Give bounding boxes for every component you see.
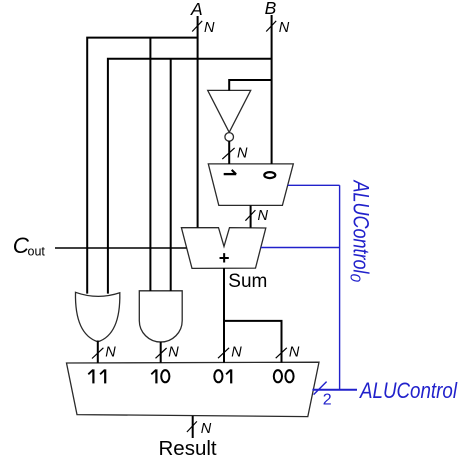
svg-text:ALUControl: ALUControl <box>349 179 374 274</box>
bus slash on AND output <box>156 348 167 358</box>
svg-text:N: N <box>258 208 269 224</box>
bus slash on B <box>266 21 276 32</box>
svg-text:Result: Result <box>159 437 217 460</box>
bus slash on inverter output <box>222 148 234 159</box>
wire ALUControl input <box>312 389 357 391</box>
label mux M1 input 1 (rotated digit) <box>224 170 237 174</box>
bus slash on OR output <box>92 348 103 359</box>
svg-text:+: + <box>219 247 230 268</box>
bus slash 2 on ALUControl <box>314 382 327 395</box>
bus slash on mux M1 output <box>245 210 255 221</box>
svg-text:N: N <box>231 344 242 360</box>
svg-text:out: out <box>28 244 46 258</box>
svg-text:ALUControl: ALUControl <box>358 378 457 403</box>
bus slash on A <box>192 21 202 32</box>
svg-text:A: A <box>190 0 203 19</box>
wire ALUControl0 select stub to mux M1 <box>288 184 340 186</box>
bus slash on input 00 <box>276 348 287 358</box>
bus slash on Sum input 01 <box>218 348 229 358</box>
AND gate G2 body <box>139 291 182 342</box>
wire inverter output to mux M1 input 1 <box>228 141 230 164</box>
adder body <box>181 228 265 269</box>
OR gate G1 body <box>75 292 119 342</box>
svg-text:B: B <box>265 0 277 18</box>
wire A branch to OR input 1 <box>87 38 197 294</box>
mux M1 (2:1) body <box>208 164 293 206</box>
mux M2 (4:1) body <box>67 362 320 416</box>
wire Sum branch to mux M2 input 00 <box>224 321 282 363</box>
svg-text:0: 0 <box>347 274 364 283</box>
wire Cout from adder <box>55 247 187 249</box>
label mux M2 input 10 (digits) <box>151 369 169 383</box>
label mux M2 input 01 (digits) <box>214 369 231 383</box>
svg-text:Sum: Sum <box>228 271 267 292</box>
svg-text:2: 2 <box>323 392 332 409</box>
wire AND output to mux M2 input 10 <box>160 342 162 363</box>
wire OR output to mux M2 input 11 <box>97 341 99 363</box>
svg-text:N: N <box>201 421 212 437</box>
svg-text:N: N <box>237 145 248 161</box>
wire B vertical into mux M1 input 0 <box>271 15 273 164</box>
wire B branch to AND input 2 <box>170 59 172 291</box>
label mux M2 input 00 (digits) <box>274 370 294 382</box>
wire Sum output to mux M2 input 01 <box>223 268 225 363</box>
wire ALUControl0 carry-in stub to adder <box>261 247 340 249</box>
wire A vertical into adder <box>197 16 199 228</box>
svg-text:N: N <box>204 20 215 36</box>
label mux M1 input 0 (rotated digit) <box>264 172 275 178</box>
svg-text:N: N <box>289 344 300 360</box>
wire ALUControl0 vertical <box>339 185 341 389</box>
bus slash on Result <box>187 421 197 432</box>
wire A branch to AND input 1 <box>149 38 151 291</box>
wire Result output <box>192 416 194 438</box>
svg-text:N: N <box>279 20 290 36</box>
wire B branch to OR input 2 <box>108 59 272 294</box>
svg-text:N: N <box>105 345 116 361</box>
inverter U1 triangle <box>208 90 251 141</box>
svg-text:N: N <box>168 345 179 361</box>
wire B hook into inverter input <box>229 80 271 91</box>
label mux M2 input 11 (digits) <box>88 369 105 383</box>
wire mux M1 output to adder <box>250 205 252 227</box>
